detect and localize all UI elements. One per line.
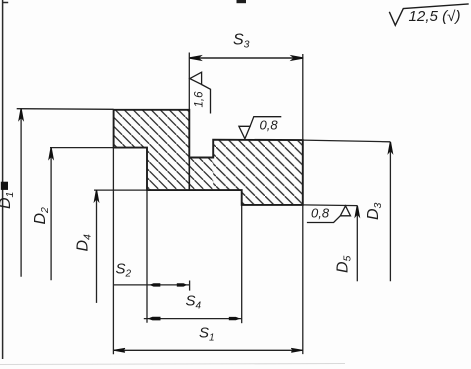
- extension line right face up to S3: [302, 54, 304, 140]
- extension line D4: [94, 189, 147, 191]
- extension line D2: [50, 147, 114, 149]
- dimension D4 arrow: [95, 190, 99, 201]
- svg-text:D2: D2: [32, 207, 51, 225]
- roughness 0,8 right symbol: [340, 206, 350, 216]
- svg-text:12,5 (√): 12,5 (√): [409, 9, 461, 25]
- roughness 0,8 top leg and bar: [250, 117, 281, 127]
- extension line step down: [146, 190, 148, 323]
- dimension D3 arrow: [389, 142, 393, 153]
- svg-text:S2: S2: [116, 261, 132, 280]
- extension line D1: [17, 108, 114, 111]
- roughness 0,8 right leg and bar: [307, 216, 340, 223]
- svg-text:S4: S4: [186, 293, 202, 312]
- internal groove edge line: [188, 158, 190, 191]
- dimension S4 right arrow: [229, 317, 241, 320]
- svg-text:D4: D4: [75, 234, 94, 252]
- extension line D5: [303, 204, 358, 207]
- dimension S1 left arrow: [114, 348, 125, 352]
- label D5: [335, 255, 354, 273]
- extension line bore step down: [241, 205, 243, 323]
- extension tick groove-left at S2: [189, 281, 191, 291]
- dimension D4 line: [96, 190, 98, 303]
- svg-text:0,8: 0,8: [260, 118, 279, 133]
- dimension S2 line: [113, 284, 189, 286]
- dimension S2 right arrow: [177, 283, 187, 286]
- roughness 1,6 symbol triangle: [190, 72, 202, 84]
- extension line right face down to S1: [302, 205, 304, 354]
- dimension S4 line: [144, 318, 242, 320]
- svg-text:D3: D3: [365, 202, 384, 220]
- dimension D1 arrow: [19, 109, 23, 120]
- dimension D5 line: [356, 206, 358, 282]
- dimension S3 right arrow: [292, 56, 303, 60]
- black square mark on border: [1, 182, 8, 190]
- scan smear bottom edge: [0, 364, 345, 365]
- svg-text:D5: D5: [335, 255, 354, 273]
- section hatch left region: [113, 109, 303, 206]
- stray mark top edge: [237, 0, 247, 3]
- svg-text:S1: S1: [199, 325, 215, 344]
- dimension S2 left arrow: [150, 283, 161, 286]
- svg-text:S3: S3: [233, 32, 250, 51]
- svg-text:1,6: 1,6: [194, 91, 206, 108]
- label D2: [32, 207, 51, 225]
- dimension S3 line: [189, 57, 303, 59]
- frame border left: [2, 0, 4, 359]
- general roughness 12,5 checkmark: [389, 4, 468, 25]
- svg-text:0,8: 0,8: [311, 206, 330, 221]
- extension line D3: [303, 140, 391, 142]
- extension line left face down: [112, 148, 114, 355]
- dimension D2 arrow: [49, 148, 53, 159]
- label D3: [365, 202, 384, 220]
- dimension D5 arrow: [355, 206, 359, 217]
- frame border top tick: [3, 2, 9, 4]
- label D4: [75, 234, 94, 252]
- extension line groove-left up to S3: [188, 53, 190, 110]
- dimension S1 right arrow: [291, 348, 302, 352]
- part outline: [114, 110, 303, 205]
- label D1: [0, 192, 16, 209]
- dimension D3 line: [389, 142, 391, 281]
- roughness 1,6 value: [194, 91, 206, 108]
- dimension S3 left arrow: [190, 56, 201, 60]
- dimension D1 line: [20, 109, 22, 277]
- dimension D2 line: [50, 148, 52, 280]
- roughness 0,8 top symbol: [239, 126, 250, 139]
- dimension S4 left arrow: [148, 317, 161, 321]
- dimension S1 line: [113, 349, 302, 351]
- roughness 1,6 tail: [202, 85, 211, 114]
